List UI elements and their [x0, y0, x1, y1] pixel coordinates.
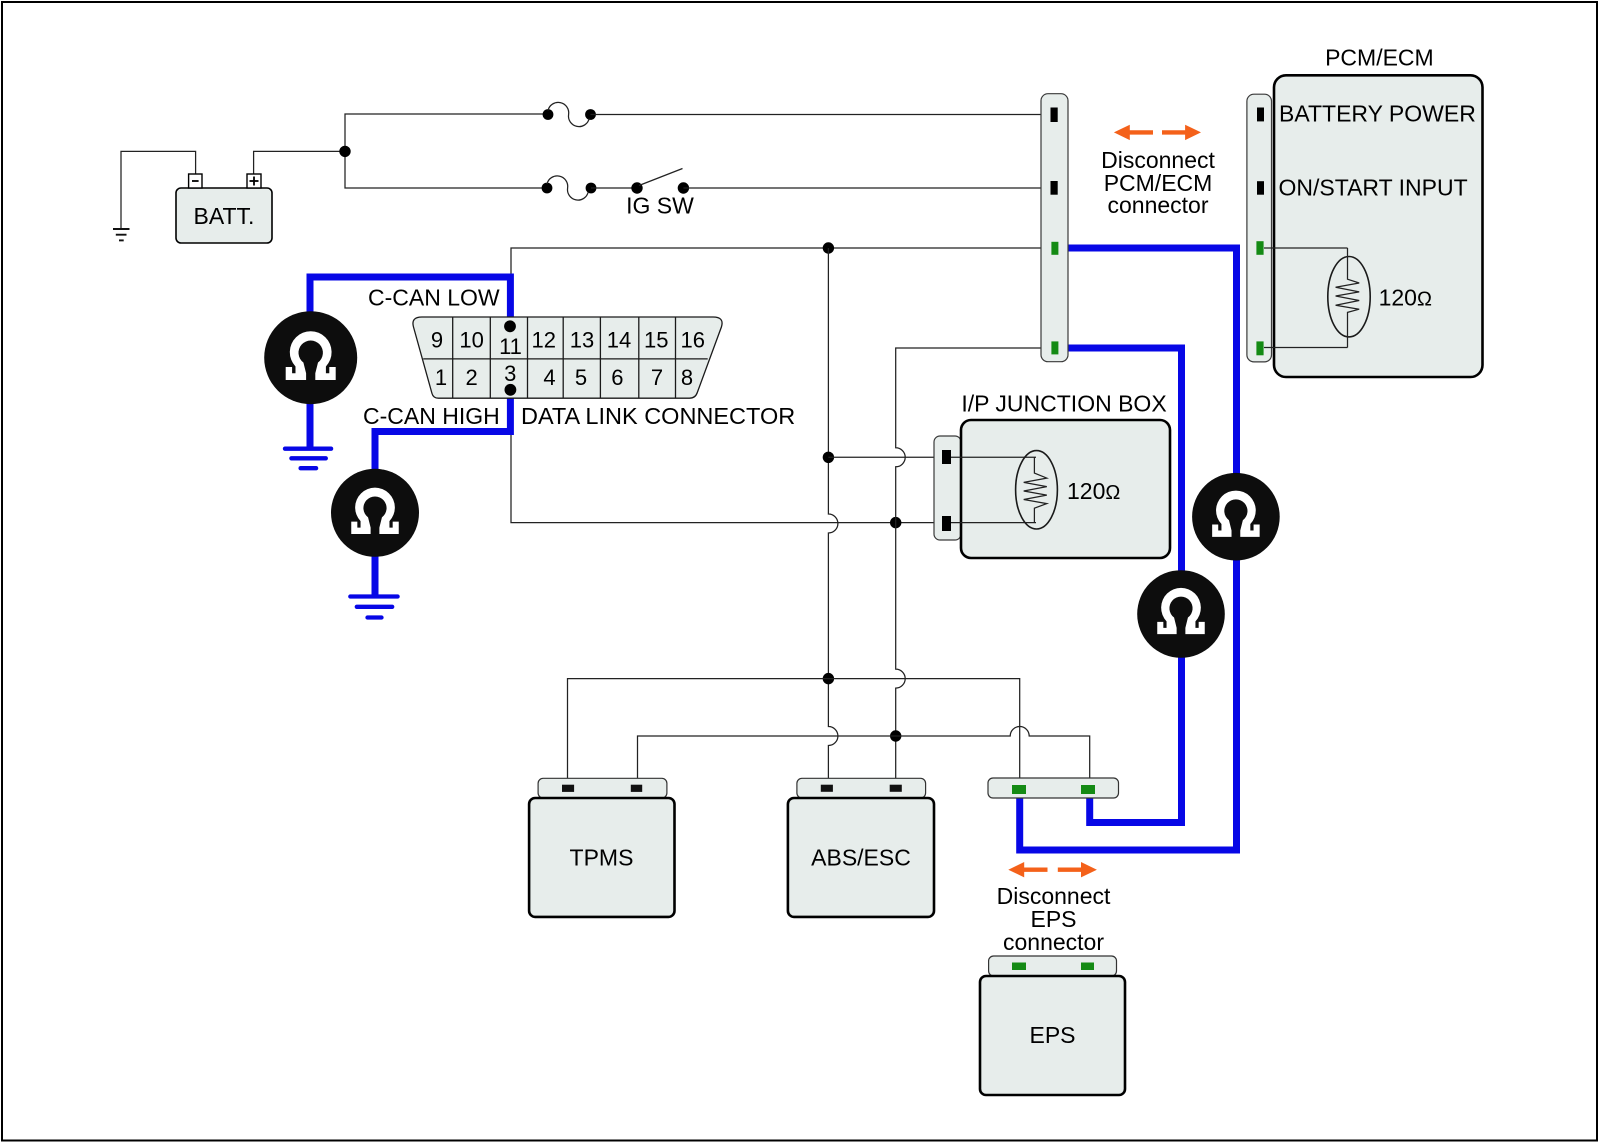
svg-text:connector: connector	[1003, 929, 1104, 955]
svg-text:I/P JUNCTION BOX: I/P JUNCTION BOX	[961, 391, 1166, 417]
svg-text:5: 5	[575, 365, 587, 390]
svg-text:TPMS: TPMS	[570, 845, 634, 871]
connector (EPS module half)	[989, 956, 1117, 976]
TPMS box	[529, 798, 674, 917]
svg-text:connector: connector	[1107, 192, 1208, 218]
svg-text:4: 4	[543, 365, 555, 390]
svg-text:10: 10	[459, 328, 483, 353]
svg-text:14: 14	[607, 328, 631, 353]
wire PCM pin 4 to resistor	[1264, 347, 1348, 349]
svg-text:12: 12	[532, 328, 556, 353]
svg-text:EPS: EPS	[1029, 1022, 1075, 1048]
node F	[823, 673, 834, 684]
I/P junction box	[961, 420, 1170, 558]
wire node B down to ABS pin 1 (hops)	[828, 248, 838, 783]
node D	[890, 517, 901, 528]
pin 11 node	[504, 320, 516, 332]
C-CAN HIGH blue jumper	[375, 390, 510, 469]
resistor 120ohm (PCM/ECM)	[1328, 248, 1432, 348]
svg-text:C-CAN HIGH: C-CAN HIGH	[363, 403, 500, 429]
svg-text:BATTERY POWER: BATTERY POWER	[1279, 101, 1476, 127]
wire I/P pin 2 to resistor	[951, 522, 1036, 524]
orange arrows (Disconnect EPS)	[1008, 862, 1097, 877]
ohmmeter U4	[1137, 570, 1225, 658]
blue wire ohmmeter U2 to ground	[372, 556, 379, 595]
pin 3 node	[505, 384, 517, 396]
svg-text:3: 3	[504, 361, 516, 386]
ABS/ESC connector strip	[797, 778, 926, 798]
ground (battery negative)	[113, 229, 130, 240]
wire fuse F1 to connector pin 1	[591, 114, 1051, 116]
svg-text:6: 6	[611, 365, 623, 390]
node B	[823, 242, 834, 253]
wire I/P pin 1 to resistor	[951, 456, 1036, 458]
node A	[339, 146, 350, 157]
svg-text:7: 7	[651, 365, 663, 390]
wire battery plus to node A	[254, 151, 345, 174]
svg-text:DATA LINK CONNECTOR: DATA LINK CONNECTOR	[521, 403, 795, 429]
ohmmeter U3	[1192, 473, 1280, 561]
switch IG SW	[626, 169, 694, 219]
wire connector pin 4 to ABS pin 2 (hops)	[896, 348, 1051, 783]
EPS box	[980, 976, 1125, 1095]
blue wire connector pin 3 to EPS pin 1	[1020, 248, 1237, 850]
fuse F1	[543, 102, 596, 126]
ohmmeter U2	[331, 469, 419, 557]
svg-text:ON/START INPUT: ON/START INPUT	[1279, 175, 1468, 201]
svg-text:BATT.: BATT.	[194, 203, 255, 229]
connector DLC (16-pin trapezoid)	[413, 317, 722, 398]
connector (I/P junction box)	[934, 436, 961, 540]
TPMS connector strip	[538, 778, 667, 798]
resistor 120ohm (I/P junction box)	[1016, 451, 1121, 529]
svg-text:PCM/ECM: PCM/ECM	[1325, 45, 1434, 71]
svg-text:8: 8	[681, 365, 693, 390]
wire bus to TPMS pin 2 and EPS pin 2 (hop)	[638, 727, 1090, 783]
connector (PCM/ECM harness half)	[1041, 94, 1068, 362]
svg-text:9: 9	[431, 328, 443, 353]
wire fuse F2 to switch	[591, 187, 637, 189]
wire bus to TPMS pin 1 and EPS pin 1	[568, 679, 1020, 783]
ABS/ESC box	[788, 798, 934, 917]
svg-text:120Ω: 120Ω	[1067, 478, 1120, 504]
wire PCM pin 3 to resistor	[1264, 247, 1348, 249]
node C	[823, 452, 834, 463]
wire node A down to IG feed	[345, 151, 547, 188]
wire battery minus to ground	[121, 151, 196, 228]
blue wire ohmmeter U1 to ground	[307, 403, 314, 447]
ground (blue, ohmmeter U1)	[285, 449, 331, 469]
connector (PCM/ECM module half)	[1247, 94, 1272, 362]
svg-text:120Ω: 120Ω	[1379, 285, 1432, 311]
PCM/ECM box	[1274, 75, 1483, 377]
wire switch to connector pin 2	[683, 187, 1050, 189]
wire DLC pin 3 to I/P junction box pin 2	[511, 390, 947, 523]
fuse F2	[542, 176, 597, 200]
Disconnect PCM/ECM connector label	[1101, 147, 1215, 218]
svg-text:ABS/ESC: ABS/ESC	[811, 845, 911, 871]
svg-text:C-CAN LOW: C-CAN LOW	[368, 285, 500, 311]
Disconnect EPS connector label	[997, 883, 1111, 955]
wire node A to top feed	[345, 114, 548, 151]
wire node C to I/P junction box pin 1	[828, 456, 946, 458]
svg-text:1: 1	[435, 365, 447, 390]
connector (EPS harness half)	[988, 778, 1119, 798]
orange arrows (Disconnect PCM/ECM)	[1114, 125, 1201, 140]
svg-text:15: 15	[644, 328, 668, 353]
svg-text:IG SW: IG SW	[626, 193, 694, 219]
svg-text:16: 16	[681, 328, 705, 353]
svg-text:13: 13	[570, 328, 594, 353]
ohmmeter U1	[264, 311, 357, 404]
svg-text:11: 11	[499, 334, 522, 359]
wire C-CAN net: DLC pin 11 to connector pin 3	[511, 248, 1051, 326]
battery BATT.	[176, 174, 272, 243]
blue wire connector pin 4 to EPS pin 2	[1058, 348, 1182, 823]
C-CAN LOW blue jumper	[310, 277, 510, 326]
ground (blue, ohmmeter U2)	[350, 597, 397, 618]
node E	[890, 730, 901, 741]
svg-text:2: 2	[465, 365, 477, 390]
